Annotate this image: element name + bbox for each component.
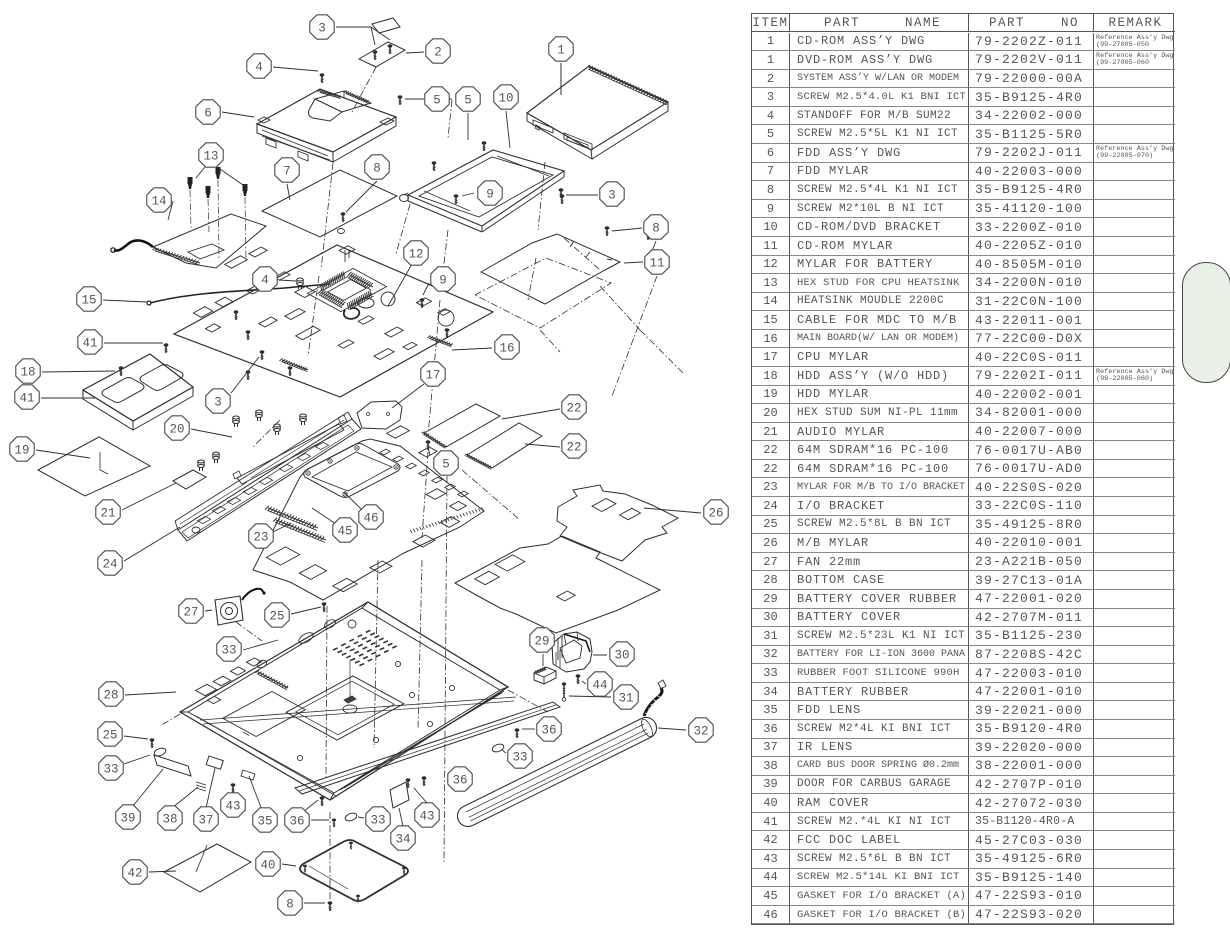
- svg-text:5: 5: [433, 94, 441, 108]
- svg-text:45: 45: [337, 525, 352, 539]
- svg-text:41: 41: [82, 337, 97, 351]
- svg-text:1: 1: [557, 44, 565, 58]
- svg-text:20: 20: [169, 423, 184, 437]
- svg-text:8: 8: [286, 898, 294, 912]
- svg-text:43: 43: [225, 800, 240, 814]
- svg-text:32: 32: [693, 725, 708, 739]
- svg-text:33: 33: [221, 644, 236, 658]
- svg-text:16: 16: [499, 342, 514, 356]
- svg-text:17: 17: [425, 369, 440, 383]
- svg-text:33: 33: [103, 763, 118, 777]
- svg-text:11: 11: [649, 257, 664, 271]
- svg-text:9: 9: [486, 188, 494, 202]
- svg-text:12: 12: [408, 248, 423, 262]
- svg-text:38: 38: [162, 813, 177, 827]
- svg-text:36: 36: [289, 815, 304, 829]
- svg-text:36: 36: [541, 724, 556, 738]
- svg-text:29: 29: [534, 635, 549, 649]
- svg-text:21: 21: [100, 507, 115, 521]
- svg-text:25: 25: [102, 729, 117, 743]
- svg-text:23: 23: [253, 531, 268, 545]
- svg-text:22: 22: [566, 402, 581, 416]
- svg-text:6: 6: [204, 107, 212, 121]
- svg-text:27: 27: [183, 606, 198, 620]
- svg-text:19: 19: [14, 444, 29, 458]
- svg-text:5: 5: [442, 458, 450, 472]
- svg-text:46: 46: [363, 512, 378, 526]
- svg-text:10: 10: [498, 92, 513, 106]
- svg-text:8: 8: [652, 222, 660, 236]
- svg-text:3: 3: [214, 396, 222, 410]
- svg-text:31: 31: [618, 692, 633, 706]
- svg-text:3: 3: [608, 189, 616, 203]
- svg-text:7: 7: [283, 165, 291, 179]
- svg-text:35: 35: [257, 815, 272, 829]
- svg-text:22: 22: [566, 441, 581, 455]
- svg-text:44: 44: [592, 679, 607, 693]
- svg-text:2: 2: [434, 46, 442, 60]
- svg-text:42: 42: [127, 867, 142, 881]
- svg-text:3: 3: [318, 22, 326, 36]
- svg-text:41: 41: [19, 392, 34, 406]
- svg-text:40: 40: [260, 859, 275, 873]
- svg-text:33: 33: [370, 814, 385, 828]
- svg-text:25: 25: [269, 610, 284, 624]
- svg-text:24: 24: [102, 558, 117, 572]
- svg-text:5: 5: [464, 94, 472, 108]
- svg-text:13: 13: [203, 150, 218, 164]
- svg-text:8: 8: [373, 162, 381, 176]
- svg-text:33: 33: [512, 751, 527, 765]
- svg-text:43: 43: [419, 810, 434, 824]
- svg-text:30: 30: [614, 649, 629, 663]
- svg-text:18: 18: [20, 366, 35, 380]
- svg-text:9: 9: [439, 274, 447, 288]
- svg-text:4: 4: [261, 274, 269, 288]
- svg-text:26: 26: [708, 507, 723, 521]
- svg-text:28: 28: [103, 689, 118, 703]
- svg-text:37: 37: [198, 814, 213, 828]
- svg-text:36: 36: [452, 774, 467, 788]
- svg-text:39: 39: [120, 812, 135, 826]
- svg-text:14: 14: [151, 195, 166, 209]
- svg-text:15: 15: [81, 294, 96, 308]
- svg-text:34: 34: [395, 833, 410, 847]
- svg-text:4: 4: [255, 61, 263, 75]
